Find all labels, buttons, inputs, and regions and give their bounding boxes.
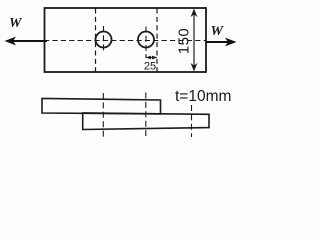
upper plate (side view): [42, 98, 161, 114]
rivet axis 1 (side view): [102, 93, 104, 137]
horizontal centerline: [46, 40, 206, 42]
load arrow W right: [207, 38, 237, 47]
rivet hole 2: [138, 32, 154, 48]
plate outline (top view): [45, 8, 207, 72]
svg-text:25: 25: [144, 61, 156, 73]
dimension line 25: [146, 56, 157, 60]
svg-text:W: W: [211, 24, 225, 39]
hidden edge of lower plate (dashed): [95, 9, 97, 72]
load arrow W left: [5, 37, 48, 46]
hole 2 vertical centerline: [145, 27, 147, 59]
rivet hole 1: [96, 32, 112, 48]
svg-text:W: W: [9, 16, 23, 31]
hidden edge of upper plate end (dashed): [156, 9, 158, 72]
hole 1 vertical centerline: [103, 26, 105, 54]
rivet axis 3 (side view): [191, 105, 193, 137]
lower plate (side view): [83, 113, 209, 130]
rivet axis 2 (side view): [145, 93, 147, 137]
dimension line 150: [191, 9, 198, 72]
svg-text:t=10mm: t=10mm: [175, 88, 231, 105]
svg-text:150: 150: [175, 28, 192, 55]
